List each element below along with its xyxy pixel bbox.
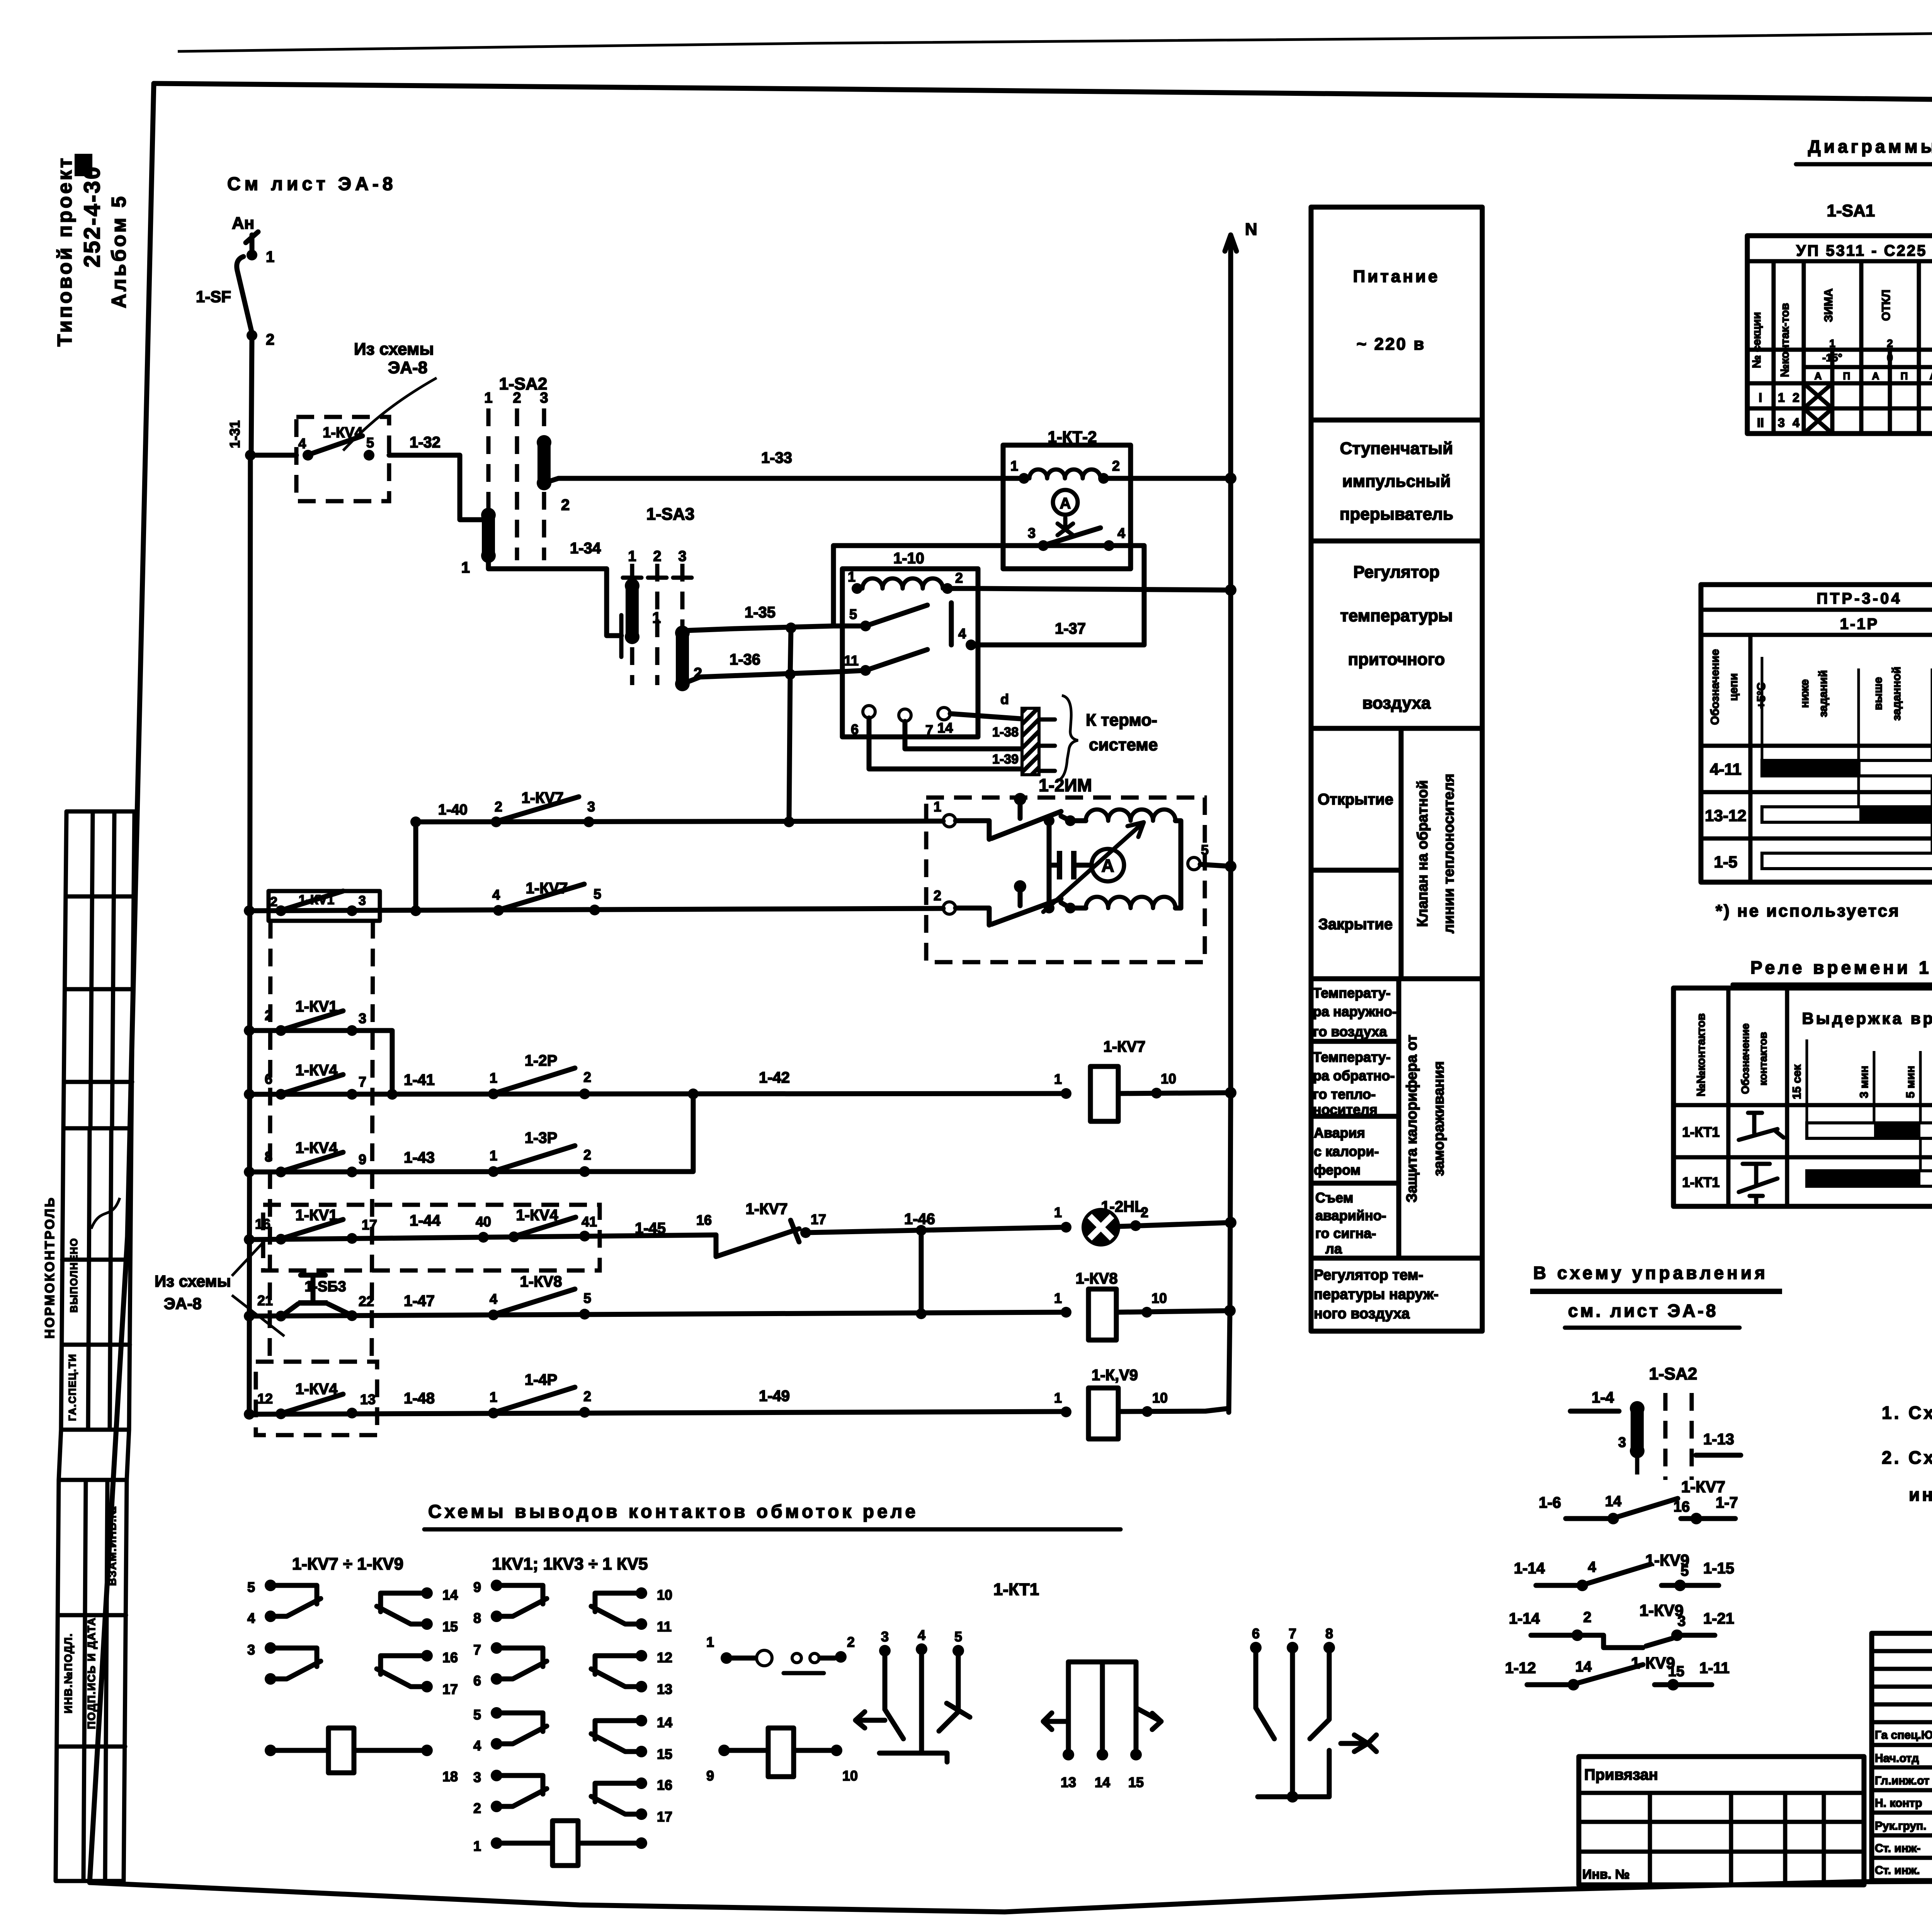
svg-text:А: А: [1930, 370, 1932, 382]
legend cell alarm reset: [1311, 1181, 1399, 1186]
svg-text:13: 13: [657, 1681, 672, 1697]
svg-text:1-SБ3: 1-SБ3: [304, 1279, 346, 1295]
contact 1-KV7 row A: [493, 905, 504, 916]
svg-text:14: 14: [1095, 1774, 1110, 1790]
svg-text:с калори-: с калори-: [1314, 1143, 1379, 1159]
svg-text:ВЗАМ.ИНВ.№: ВЗАМ.ИНВ.№: [106, 1505, 118, 1586]
svg-text:1: 1: [628, 548, 636, 565]
svg-text:пературы наруж-: пературы наруж-: [1314, 1286, 1439, 1303]
contact 1-KV4 row G: [276, 1408, 286, 1419]
svg-text:1: 1: [490, 1148, 497, 1163]
relay contact 1-KV4 in dashed box: [296, 417, 389, 501]
svg-text:I: I: [1759, 391, 1762, 405]
svg-text:импульсный: импульсный: [1342, 472, 1451, 491]
svg-text:2: 2: [495, 799, 502, 815]
node 40 row E: [478, 1232, 489, 1243]
pinout 1KV1 contacts right: [591, 1587, 647, 1630]
svg-text:8: 8: [265, 1149, 272, 1165]
svg-text:0: 0: [1887, 352, 1893, 364]
relay contact 1-KV1 row A: [269, 891, 380, 921]
svg-text:1: 1: [490, 1070, 497, 1086]
svg-text:3: 3: [359, 893, 366, 908]
svg-text:1: 1: [1010, 458, 1018, 474]
stamp strip middle table: [61, 1128, 131, 1430]
motor of 1-2IM: [1092, 849, 1124, 881]
svg-text:3: 3: [1778, 416, 1785, 430]
svg-text:6: 6: [1252, 1626, 1260, 1641]
svg-text:1-38: 1-38: [992, 725, 1019, 740]
svg-text:ЭА-8: ЭА-8: [388, 358, 427, 377]
svg-text:1-КV7: 1-КV7: [522, 789, 564, 806]
svg-text:1-44: 1-44: [410, 1212, 441, 1229]
wire row E: [249, 1235, 716, 1240]
pinout 1KV1 contacts left: [491, 1580, 547, 1622]
wire 1-34: [488, 556, 621, 636]
left margin vertical project labels: [54, 154, 130, 347]
svg-text:22: 22: [359, 1293, 374, 1309]
svg-text:1-КV9: 1-КV9: [1639, 1601, 1684, 1619]
svg-text:см. лист ЭА-8: см. лист ЭА-8: [1568, 1301, 1718, 1321]
svg-text:Выдержка времени: Выдержка времени: [1802, 1009, 1932, 1027]
svg-text:замораживания: замораживания: [1431, 1061, 1447, 1176]
svg-text:16: 16: [657, 1777, 672, 1793]
svg-text:1. Схему управления см. лис: 1. Схему управления см. лист ЭА-8: [1882, 1403, 1932, 1423]
svg-text:2: 2: [270, 895, 277, 909]
svg-text:1: 1: [652, 609, 661, 626]
svg-text:21: 21: [257, 1293, 273, 1308]
svg-text:+5°С: +5°С: [1755, 682, 1768, 709]
svg-text:температуры: температуры: [1340, 606, 1452, 625]
contact 1-KV4 row D: [276, 1167, 286, 1177]
node bus top junction: [245, 450, 256, 461]
svg-text:НОРМОКОНТРОЛЬ: НОРМОКОНТРОЛЬ: [43, 1196, 57, 1339]
push button 1-SB3: [276, 1311, 286, 1321]
svg-text:1-39: 1-39: [992, 752, 1019, 767]
svg-text:5: 5: [366, 435, 374, 451]
svg-text:1-47: 1-47: [404, 1293, 435, 1310]
svg-text:8: 8: [473, 1610, 481, 1626]
svg-text:Гл.инж.от: Гл.инж.от: [1875, 1774, 1929, 1787]
svg-text:2: 2: [473, 1800, 481, 1816]
svg-text:Ан: Ан: [232, 214, 254, 233]
svg-text:14: 14: [1575, 1659, 1592, 1675]
bar row 1-5: [1762, 853, 1932, 869]
svg-text:1-10: 1-10: [893, 550, 924, 567]
svg-text:1-11: 1-11: [1699, 1660, 1730, 1677]
svg-text:аварийно-: аварийно-: [1315, 1207, 1386, 1223]
wire loop around 1-10: [833, 546, 1144, 645]
notes: [1882, 1403, 1932, 1505]
svg-text:См лист ЭА-8: См лист ЭА-8: [227, 174, 397, 194]
svg-text:4: 4: [918, 1627, 925, 1643]
legend cell power 220V: [1311, 418, 1482, 423]
svg-text:1-2ИМ: 1-2ИМ: [1039, 775, 1092, 795]
svg-text:1-КV4: 1-КV4: [516, 1207, 559, 1224]
svg-text:2: 2: [847, 1634, 855, 1650]
capacitor of 1-2IM: [1047, 821, 1052, 908]
svg-text:2: 2: [934, 888, 941, 903]
svg-text:13: 13: [360, 1391, 376, 1407]
svg-text:1-21: 1-21: [1703, 1610, 1734, 1627]
svg-text:Ст. инж-: Ст. инж-: [1875, 1842, 1920, 1855]
node row F junction: [916, 1308, 927, 1319]
wire link 1-35 to 1-36: [790, 628, 791, 674]
svg-text:Закрытие: Закрытие: [1318, 916, 1393, 933]
wire left bus vertical: [249, 455, 250, 1414]
legend divider after valve cells: [1311, 976, 1482, 981]
svg-text:ПОДП.ИСЬ И ДАТА: ПОДП.ИСЬ И ДАТА: [85, 1617, 97, 1729]
dashed group box row E: [263, 1205, 600, 1270]
svg-text:1: 1: [490, 1389, 497, 1405]
svg-text:4: 4: [492, 887, 500, 903]
svg-text:1-КТ1: 1-КТ1: [1682, 1174, 1720, 1190]
svg-text:1-32: 1-32: [410, 434, 440, 451]
svg-text:1: 1: [848, 569, 855, 585]
svg-text:7: 7: [473, 1642, 481, 1658]
breaker 1-SF: [247, 250, 257, 260]
svg-text:18: 18: [442, 1769, 458, 1784]
svg-text:ЭА-8: ЭА-8: [164, 1294, 202, 1313]
svg-text:9: 9: [359, 1151, 366, 1167]
svg-text:Регулятор тем-: Регулятор тем-: [1314, 1267, 1423, 1283]
svg-text:ОТКЛ: ОТКЛ: [1880, 289, 1893, 321]
svg-text:1-31: 1-31: [227, 420, 243, 448]
svg-text:1: 1: [461, 559, 470, 576]
svg-text:Обозначение: Обозначение: [1739, 1023, 1751, 1094]
svg-text:16: 16: [255, 1216, 270, 1232]
title block signature rows: [1875, 1729, 1932, 1877]
svg-text:1: 1: [1054, 1290, 1062, 1306]
contact 1-KV4 row E: [509, 1231, 519, 1242]
svg-text:1-13: 1-13: [1703, 1431, 1734, 1448]
svg-text:*) не используется: *) не используется: [1716, 901, 1900, 920]
svg-text:13: 13: [1061, 1774, 1076, 1790]
svg-text:прерыватель: прерыватель: [1340, 505, 1453, 524]
svg-text:Открытие: Открытие: [1318, 791, 1393, 808]
svg-text:17: 17: [811, 1211, 826, 1227]
svg-text:Питание: Питание: [1353, 267, 1440, 286]
svg-text:го сигна-: го сигна-: [1315, 1225, 1376, 1241]
svg-text:ЗИМА: ЗИМА: [1822, 288, 1835, 322]
svg-text:4: 4: [1793, 416, 1799, 430]
svg-text:А: А: [1872, 370, 1879, 382]
svg-text:5: 5: [473, 1707, 481, 1723]
svg-text:5: 5: [583, 1290, 591, 1306]
pinout 1-KT1 contact group 13 14 15: [1068, 1660, 1136, 1665]
svg-text:1-К,V9: 1-К,V9: [1092, 1367, 1138, 1384]
svg-text:d: d: [1000, 691, 1009, 707]
svg-text:Альбом 5: Альбом 5: [108, 194, 130, 308]
svg-text:1-SA2: 1-SA2: [1649, 1364, 1697, 1383]
svg-text:2: 2: [1793, 391, 1799, 405]
svg-text:3 мин: 3 мин: [1858, 1066, 1871, 1098]
svg-text:2: 2: [583, 1147, 591, 1163]
svg-text:5 мин: 5 мин: [1904, 1066, 1917, 1098]
svg-text:8: 8: [1325, 1626, 1333, 1641]
svg-text:12: 12: [657, 1650, 672, 1665]
wire N bus: [1229, 235, 1231, 1412]
svg-text:10: 10: [842, 1768, 858, 1784]
svg-text:14: 14: [1605, 1493, 1621, 1510]
frame top edge: [154, 83, 1932, 107]
svg-text:2: 2: [583, 1388, 591, 1404]
wire 1-31: [250, 453, 296, 458]
schematic ladder: [155, 340, 1236, 1439]
svg-text:15: 15: [1668, 1663, 1684, 1680]
svg-text:6: 6: [265, 1071, 272, 1087]
svg-text:1-КТ1: 1-КТ1: [993, 1580, 1039, 1599]
svg-text:№контак-тов: №контак-тов: [1779, 303, 1791, 377]
svg-text:ного воздуха: ного воздуха: [1314, 1306, 1410, 1322]
svg-text:3: 3: [473, 1769, 481, 1785]
wire 1-39: [905, 721, 1020, 749]
svg-text:1-КV7: 1-КV7: [526, 880, 568, 897]
wire terminal 6 to thermo block: [869, 718, 1020, 769]
svg-text:Схемы выводов контактов обм: Схемы выводов контактов обмоток реле: [428, 1502, 918, 1522]
pinout 1-KV7 coil: [265, 1745, 276, 1756]
svg-text:1: 1: [473, 1838, 481, 1854]
svg-text:Типовой проект: Типовой проект: [54, 156, 76, 347]
svg-text:Ступенчатый: Ступенчатый: [1340, 439, 1453, 458]
svg-text:16: 16: [696, 1212, 712, 1228]
svg-text:1-42: 1-42: [759, 1069, 790, 1086]
pinout 1-KT1 heater pins 1 2: [721, 1652, 732, 1664]
legend cell outdoor temp regulator: [1311, 1256, 1482, 1261]
left margin stamp strip: [43, 811, 134, 1881]
svg-text:Клапан на обратной: Клапан на обратной: [1415, 780, 1431, 927]
svg-text:2: 2: [1583, 1609, 1591, 1626]
svg-text:N: N: [1245, 220, 1257, 239]
svg-text:Защита калорифера от: Защита калорифера от: [1404, 1035, 1420, 1202]
svg-text:9: 9: [706, 1768, 714, 1784]
svg-text:5: 5: [594, 886, 601, 902]
svg-text:ра обратно-: ра обратно-: [1313, 1068, 1395, 1083]
svg-text:Температу-: Температу-: [1313, 1049, 1391, 1065]
svg-text:приточного: приточного: [1348, 650, 1445, 669]
svg-text:4: 4: [473, 1738, 481, 1753]
svg-text:1-37: 1-37: [1055, 620, 1086, 637]
svg-text:№№контактов: №№контактов: [1695, 1013, 1708, 1096]
wire sub row to damper: [416, 821, 943, 822]
svg-text:7: 7: [359, 1074, 366, 1090]
pinout 1KV1 coil: [491, 1837, 502, 1849]
svg-text:7: 7: [925, 722, 933, 738]
svg-text:1-КV8: 1-КV8: [520, 1273, 562, 1290]
lower coil of 1-2IM: [1086, 897, 1175, 908]
svg-text:2: 2: [513, 390, 521, 406]
svg-text:системе: системе: [1089, 735, 1158, 754]
privyazan table: [1579, 1757, 1864, 1885]
svg-text:№ секции: № секции: [1750, 312, 1763, 368]
svg-text:фером: фером: [1314, 1162, 1361, 1178]
svg-text:ГА.СПЕЦ.ТИ: ГА.СПЕЦ.ТИ: [66, 1354, 78, 1421]
table PTR-3-04: [1701, 585, 1932, 882]
svg-text:10: 10: [657, 1587, 672, 1603]
svg-text:4: 4: [1588, 1559, 1596, 1575]
svg-text:ИНВ.№ПОДЛ.: ИНВ.№ПОДЛ.: [62, 1633, 74, 1713]
svg-text:15: 15: [657, 1746, 672, 1762]
svg-text:12: 12: [257, 1391, 273, 1406]
svg-text:П: П: [1901, 370, 1908, 382]
contact 1-KV1 row B: [276, 1025, 286, 1036]
legend cell open: [1399, 728, 1404, 979]
legend cell supply air temperature regulator: [1311, 726, 1482, 731]
brace to thermo system: [1056, 696, 1078, 781]
wire row D: [249, 1094, 693, 1172]
svg-text:выше: выше: [1872, 677, 1884, 710]
svg-text:3: 3: [1618, 1434, 1626, 1450]
title block: [1579, 1633, 1932, 1908]
wire 1-38: [950, 714, 1020, 719]
svg-text:1-КV4: 1-КV4: [296, 1139, 338, 1156]
table KT1 frame: [1673, 988, 1932, 1206]
svg-text:1-КV7: 1-КV7: [1681, 1478, 1725, 1496]
svg-text:2: 2: [561, 497, 570, 514]
frame left edge: [90, 83, 154, 1883]
stamp blob top-left: [75, 154, 92, 176]
svg-text:9: 9: [473, 1579, 481, 1595]
wire row B: [249, 1031, 392, 1094]
svg-text:1-40: 1-40: [438, 802, 468, 818]
svg-text:1-49: 1-49: [759, 1388, 790, 1405]
middle temperature tables: [1701, 585, 1932, 920]
svg-text:1-15: 1-15: [1703, 1560, 1734, 1577]
svg-text:индекс „1" меняется соответств: индекс „1" меняется соответственно номер…: [1909, 1485, 1932, 1505]
central legend column: [1311, 207, 1482, 1331]
wire 1-2IM to N bus: [1200, 864, 1231, 866]
arrow across 1-2IM: [1043, 822, 1144, 912]
contact 1-KV8 row F: [488, 1310, 499, 1320]
svg-text:ПТР-3-04: ПТР-3-04: [1816, 590, 1902, 607]
svg-text:3: 3: [247, 1642, 255, 1658]
svg-text:Диаграммы работы контактов: Диаграммы работы контактов универсальных…: [1808, 136, 1932, 156]
svg-text:13-12: 13-12: [1705, 806, 1746, 825]
svg-text:1КV1; 1КV3 ÷ 1 КV5: 1КV1; 1КV3 ÷ 1 КV5: [492, 1554, 648, 1573]
svg-text:цепи: цепи: [1727, 673, 1740, 701]
svg-text:1-КV1: 1-КV1: [296, 1207, 338, 1224]
svg-text:II: II: [1757, 416, 1764, 430]
svg-text:Реле времени 1-КТ1: Реле времени 1-КТ1: [1750, 957, 1932, 978]
wire drop to motor valve row: [789, 674, 790, 822]
wire 1-36: [682, 670, 866, 684]
svg-text:контактов: контактов: [1757, 1032, 1769, 1086]
wire 1-32: [389, 455, 488, 520]
terminal 1 of 1-2IM: [943, 815, 956, 827]
legend cell step interrupter: [1311, 539, 1482, 544]
svg-text:1-6: 1-6: [1539, 1494, 1561, 1511]
svg-text:1-14: 1-14: [1514, 1560, 1545, 1577]
frame bottom edge: [90, 1879, 1932, 1912]
svg-text:16: 16: [442, 1650, 458, 1665]
svg-text:го воздуха: го воздуха: [1313, 1024, 1387, 1039]
svg-text:Регулятор: Регулятор: [1353, 563, 1439, 582]
svg-text:11: 11: [657, 1619, 672, 1634]
svg-text:1-4Р: 1-4Р: [525, 1371, 558, 1388]
svg-text:1-35: 1-35: [745, 604, 776, 621]
stamp strip upper table: [63, 811, 134, 1128]
svg-text:A: A: [1060, 495, 1071, 512]
svg-text:3: 3: [1028, 525, 1036, 541]
svg-text:заданий: заданий: [1817, 670, 1830, 717]
svg-text:Обозначение: Обозначение: [1709, 649, 1721, 725]
svg-text:2: 2: [265, 1007, 272, 1023]
wire feeder to bus: [251, 335, 252, 455]
svg-text:14: 14: [937, 720, 953, 736]
svg-text:40: 40: [476, 1214, 491, 1230]
svg-text:заданной: заданной: [1890, 667, 1903, 721]
svg-text:1-КV7 ÷ 1-КV9: 1-КV7 ÷ 1-КV9: [292, 1554, 403, 1573]
main schematic left: [196, 174, 1257, 1414]
wire row C: [249, 1094, 1066, 1094]
svg-text:17: 17: [442, 1681, 458, 1697]
svg-text:1-41: 1-41: [404, 1071, 435, 1088]
svg-text:10: 10: [1161, 1071, 1176, 1087]
svg-text:1-48: 1-48: [404, 1390, 435, 1407]
terminal 2 of 1-2IM: [943, 902, 956, 914]
svg-text:ра наружно-: ра наружно-: [1313, 1003, 1397, 1019]
svg-text:А: А: [1815, 370, 1822, 382]
legend cell return heat carrier temperature: [1311, 1039, 1399, 1044]
terminal 5 of 1-2IM: [1188, 857, 1200, 870]
svg-text:17: 17: [362, 1217, 377, 1233]
legend cell close: [1311, 868, 1401, 873]
svg-text:ла: ла: [1325, 1241, 1342, 1257]
pinout 1-KT1 coil: [718, 1745, 730, 1756]
wire row G: [249, 1412, 1066, 1414]
svg-text:5: 5: [849, 606, 857, 622]
wire 1-37 collector: [949, 603, 954, 645]
upper limit switch of 1-2IM: [956, 821, 989, 839]
svg-text:3: 3: [1677, 1613, 1685, 1629]
svg-text:5: 5: [954, 1629, 962, 1645]
contact 1-3R row D: [488, 1166, 499, 1177]
svg-text:1-КV8: 1-КV8: [1076, 1270, 1118, 1287]
svg-text:1: 1: [706, 1634, 714, 1650]
sheet outer edge line top: [178, 19, 1932, 51]
svg-text:2: 2: [1112, 458, 1120, 474]
svg-text:14: 14: [657, 1714, 672, 1730]
lower limit switch of 1-2IM: [956, 908, 989, 925]
svg-text:Ст. инж.: Ст. инж.: [1875, 1864, 1920, 1877]
svg-text:К термо-: К термо-: [1086, 711, 1157, 730]
svg-text:1: 1: [1829, 337, 1835, 349]
svg-text:2: 2: [1887, 337, 1893, 349]
svg-text:17: 17: [657, 1809, 672, 1825]
wire 1-35: [684, 626, 866, 631]
svg-text:Привязан: Привязан: [1584, 1766, 1658, 1783]
svg-text:3: 3: [359, 1010, 366, 1026]
svg-text:Нач.отд: Нач.отд: [1875, 1752, 1919, 1765]
svg-text:1: 1: [1778, 391, 1785, 405]
svg-text:1: 1: [1054, 1390, 1062, 1406]
svg-text:1-КV7: 1-КV7: [1104, 1038, 1146, 1055]
svg-text:1-1Р: 1-1Р: [1840, 616, 1879, 633]
svg-text:15: 15: [1128, 1774, 1144, 1790]
wire feeder from An: [250, 235, 255, 252]
svg-text:воздуха: воздуха: [1362, 694, 1431, 713]
svg-text:Из схемы: Из схемы: [354, 340, 434, 359]
contact 1-KV1 row E: [276, 1234, 286, 1245]
svg-text:4: 4: [490, 1291, 497, 1307]
svg-text:4: 4: [1117, 525, 1125, 541]
svg-text:Инв. №: Инв. №: [1582, 1867, 1630, 1882]
break contact 1-KV7 row E: [716, 1229, 799, 1257]
svg-text:1-КV7: 1-КV7: [746, 1201, 788, 1218]
svg-text:Н. контр: Н. контр: [1875, 1797, 1922, 1810]
svg-text:1-SA1: 1-SA1: [1827, 201, 1875, 220]
svg-text:4: 4: [247, 1610, 255, 1626]
svg-text:15: 15: [442, 1619, 458, 1634]
